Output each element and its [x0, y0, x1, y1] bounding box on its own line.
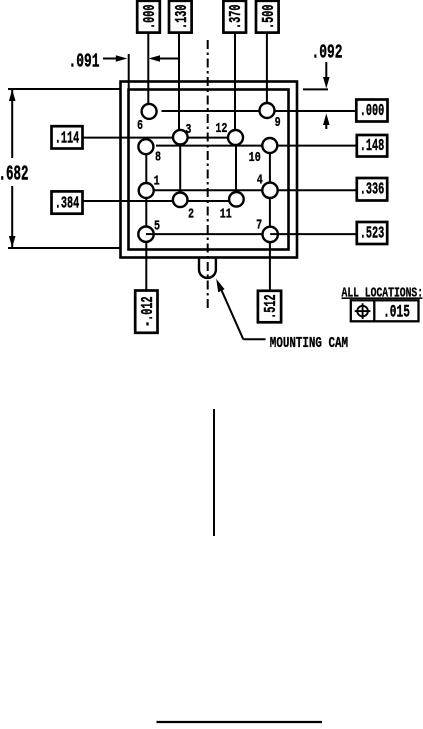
svg-text:8: 8	[155, 149, 161, 165]
svg-text:5: 5	[154, 218, 160, 234]
svg-text:.092: .092	[311, 41, 342, 63]
svg-text:11: 11	[220, 206, 232, 222]
svg-text:3: 3	[185, 121, 191, 137]
svg-text:.682: .682	[0, 162, 28, 186]
svg-text:.091: .091	[68, 50, 99, 72]
svg-text:.000: .000	[360, 103, 385, 121]
svg-text:4: 4	[257, 172, 263, 188]
svg-text:7: 7	[256, 217, 262, 233]
svg-text:.130: .130	[174, 4, 192, 29]
svg-text:.523: .523	[360, 225, 385, 243]
svg-text:.384: .384	[55, 195, 80, 213]
svg-text:1: 1	[154, 173, 160, 189]
svg-text:.512: .512	[263, 294, 281, 319]
svg-text:6: 6	[137, 118, 143, 134]
svg-text:9: 9	[275, 114, 281, 130]
svg-text:.000: .000	[142, 4, 160, 29]
svg-text:.148: .148	[360, 138, 385, 156]
svg-text:10: 10	[249, 150, 261, 166]
svg-text:.336: .336	[360, 182, 385, 200]
svg-text:MOUNTING CAM: MOUNTING CAM	[270, 335, 348, 352]
svg-text:.114: .114	[55, 130, 80, 148]
svg-text:12: 12	[215, 120, 227, 136]
svg-text:-.012: -.012	[140, 296, 158, 327]
svg-text:.500: .500	[261, 4, 279, 29]
svg-text:.015: .015	[383, 303, 410, 322]
svg-text:.370: .370	[228, 4, 246, 29]
svg-text:2: 2	[188, 206, 194, 222]
